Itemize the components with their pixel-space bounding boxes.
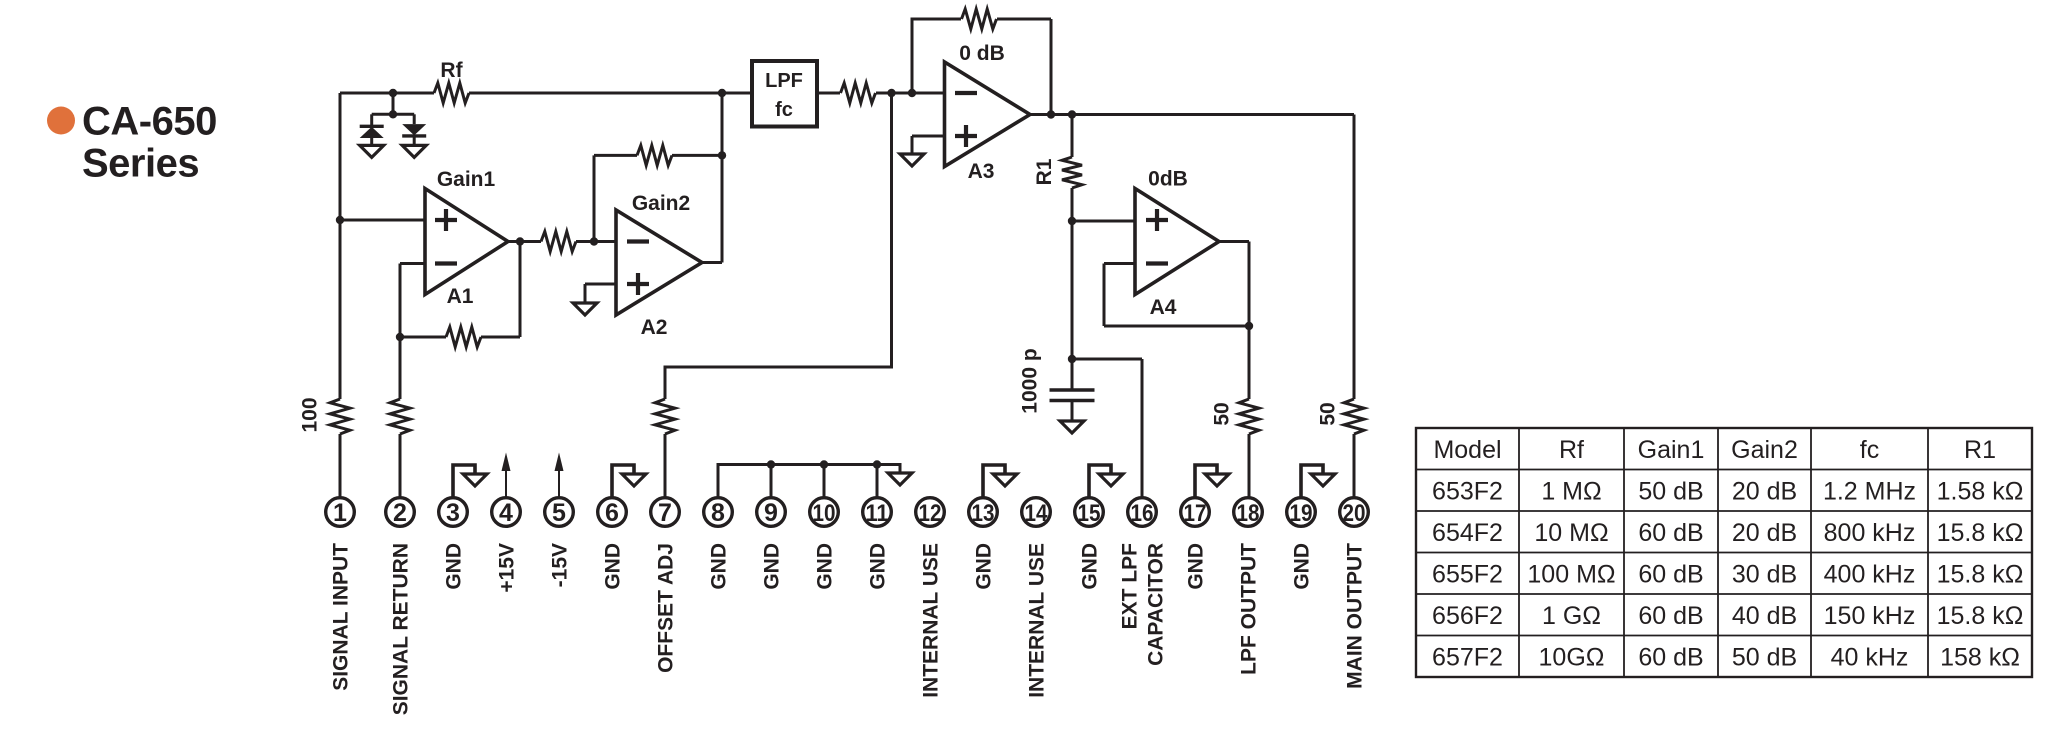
svg-text:1: 1 <box>333 499 347 527</box>
svg-text:50 dB: 50 dB <box>1638 477 1703 505</box>
svg-text:CA-650: CA-650 <box>82 100 217 144</box>
svg-text:50: 50 <box>1317 402 1340 425</box>
svg-text:Rf: Rf <box>440 59 463 82</box>
svg-text:Gain2: Gain2 <box>632 192 690 215</box>
svg-text:60 dB: 60 dB <box>1638 643 1703 671</box>
svg-text:Model: Model <box>1433 436 1501 464</box>
svg-text:+15V: +15V <box>496 543 519 593</box>
svg-text:GND: GND <box>443 543 466 590</box>
svg-text:fc: fc <box>775 99 793 121</box>
svg-text:16: 16 <box>1131 500 1154 527</box>
svg-text:1 GΩ: 1 GΩ <box>1542 602 1601 630</box>
svg-text:20 dB: 20 dB <box>1732 477 1797 505</box>
svg-text:11: 11 <box>866 500 889 527</box>
svg-text:20: 20 <box>1343 500 1366 527</box>
svg-text:Rf: Rf <box>1559 436 1584 464</box>
svg-text:GND: GND <box>708 543 731 590</box>
svg-text:LPF OUTPUT: LPF OUTPUT <box>1238 543 1261 675</box>
svg-text:OFFSET ADJ: OFFSET ADJ <box>655 543 678 673</box>
svg-text:4: 4 <box>499 499 513 527</box>
svg-text:GND: GND <box>1079 543 1102 590</box>
svg-text:18: 18 <box>1237 500 1260 527</box>
svg-text:A4: A4 <box>1150 296 1177 319</box>
svg-text:1000 p: 1000 p <box>1019 348 1042 413</box>
svg-text:MAIN OUTPUT: MAIN OUTPUT <box>1344 543 1367 689</box>
svg-text:50 dB: 50 dB <box>1732 643 1797 671</box>
svg-text:657F2: 657F2 <box>1432 643 1503 671</box>
svg-text:fc: fc <box>1860 436 1879 464</box>
svg-text:100: 100 <box>299 397 322 432</box>
svg-text:40 kHz: 40 kHz <box>1831 643 1909 671</box>
svg-text:LPF: LPF <box>765 70 803 92</box>
svg-text:655F2: 655F2 <box>1432 560 1503 588</box>
svg-text:10GΩ: 10GΩ <box>1539 643 1605 671</box>
svg-text:5: 5 <box>552 499 566 527</box>
svg-text:2: 2 <box>393 499 407 527</box>
svg-text:30 dB: 30 dB <box>1732 560 1797 588</box>
svg-text:EXT LPF: EXT LPF <box>1119 543 1142 630</box>
svg-text:GND: GND <box>867 543 890 590</box>
svg-text:60 dB: 60 dB <box>1638 519 1703 547</box>
svg-text:CAPACITOR: CAPACITOR <box>1145 543 1168 666</box>
svg-text:13: 13 <box>972 500 995 527</box>
svg-text:3: 3 <box>446 499 460 527</box>
svg-text:SIGNAL RETURN: SIGNAL RETURN <box>390 543 413 715</box>
svg-text:17: 17 <box>1184 500 1207 527</box>
svg-text:SIGNAL INPUT: SIGNAL INPUT <box>330 543 353 691</box>
svg-text:A1: A1 <box>447 285 474 308</box>
svg-text:GND: GND <box>761 543 784 590</box>
svg-text:50: 50 <box>1211 402 1234 425</box>
svg-text:8: 8 <box>711 499 725 527</box>
svg-text:1.58 kΩ: 1.58 kΩ <box>1937 477 2024 505</box>
svg-text:9: 9 <box>764 499 778 527</box>
svg-text:1 MΩ: 1 MΩ <box>1541 477 1601 505</box>
svg-text:12: 12 <box>919 500 942 527</box>
svg-text:158 kΩ: 158 kΩ <box>1940 643 2020 671</box>
svg-text:GND: GND <box>814 543 837 590</box>
svg-text:GND: GND <box>1291 543 1314 590</box>
svg-text:150 kHz: 150 kHz <box>1824 602 1916 630</box>
svg-text:10 MΩ: 10 MΩ <box>1534 519 1608 547</box>
svg-text:654F2: 654F2 <box>1432 519 1503 547</box>
svg-text:19: 19 <box>1290 500 1313 527</box>
svg-text:15.8 kΩ: 15.8 kΩ <box>1937 560 2024 588</box>
svg-text:60 dB: 60 dB <box>1638 602 1703 630</box>
svg-text:1.2 MHz: 1.2 MHz <box>1823 477 1916 505</box>
svg-text:GND: GND <box>1185 543 1208 590</box>
svg-text:R1: R1 <box>1033 158 1056 185</box>
svg-text:GND: GND <box>973 543 996 590</box>
svg-text:A2: A2 <box>641 316 668 339</box>
svg-text:20 dB: 20 dB <box>1732 519 1797 547</box>
svg-text:40 dB: 40 dB <box>1732 602 1797 630</box>
svg-text:R1: R1 <box>1964 436 1996 464</box>
svg-text:60 dB: 60 dB <box>1638 560 1703 588</box>
svg-text:INTERNAL USE: INTERNAL USE <box>920 543 943 698</box>
svg-text:400 kHz: 400 kHz <box>1824 560 1916 588</box>
svg-text:10: 10 <box>813 500 836 527</box>
svg-text:100 MΩ: 100 MΩ <box>1527 560 1615 588</box>
svg-text:15: 15 <box>1078 500 1101 527</box>
svg-text:14: 14 <box>1025 500 1049 527</box>
svg-text:GND: GND <box>602 543 625 590</box>
svg-text:INTERNAL USE: INTERNAL USE <box>1026 543 1049 698</box>
svg-text:0 dB: 0 dB <box>959 42 1005 65</box>
svg-text:7: 7 <box>658 499 672 527</box>
svg-text:800 kHz: 800 kHz <box>1824 519 1916 547</box>
svg-text:15.8 kΩ: 15.8 kΩ <box>1937 519 2024 547</box>
svg-text:6: 6 <box>605 499 619 527</box>
svg-text:0dB: 0dB <box>1148 168 1188 191</box>
svg-text:-15V: -15V <box>549 543 572 587</box>
svg-text:Gain1: Gain1 <box>1638 436 1705 464</box>
svg-text:653F2: 653F2 <box>1432 477 1503 505</box>
svg-text:Gain1: Gain1 <box>437 168 496 191</box>
svg-text:Gain2: Gain2 <box>1731 436 1798 464</box>
svg-text:Series: Series <box>82 142 199 186</box>
svg-text:656F2: 656F2 <box>1432 602 1503 630</box>
svg-text:15.8 kΩ: 15.8 kΩ <box>1937 602 2024 630</box>
svg-text:A3: A3 <box>968 160 995 183</box>
